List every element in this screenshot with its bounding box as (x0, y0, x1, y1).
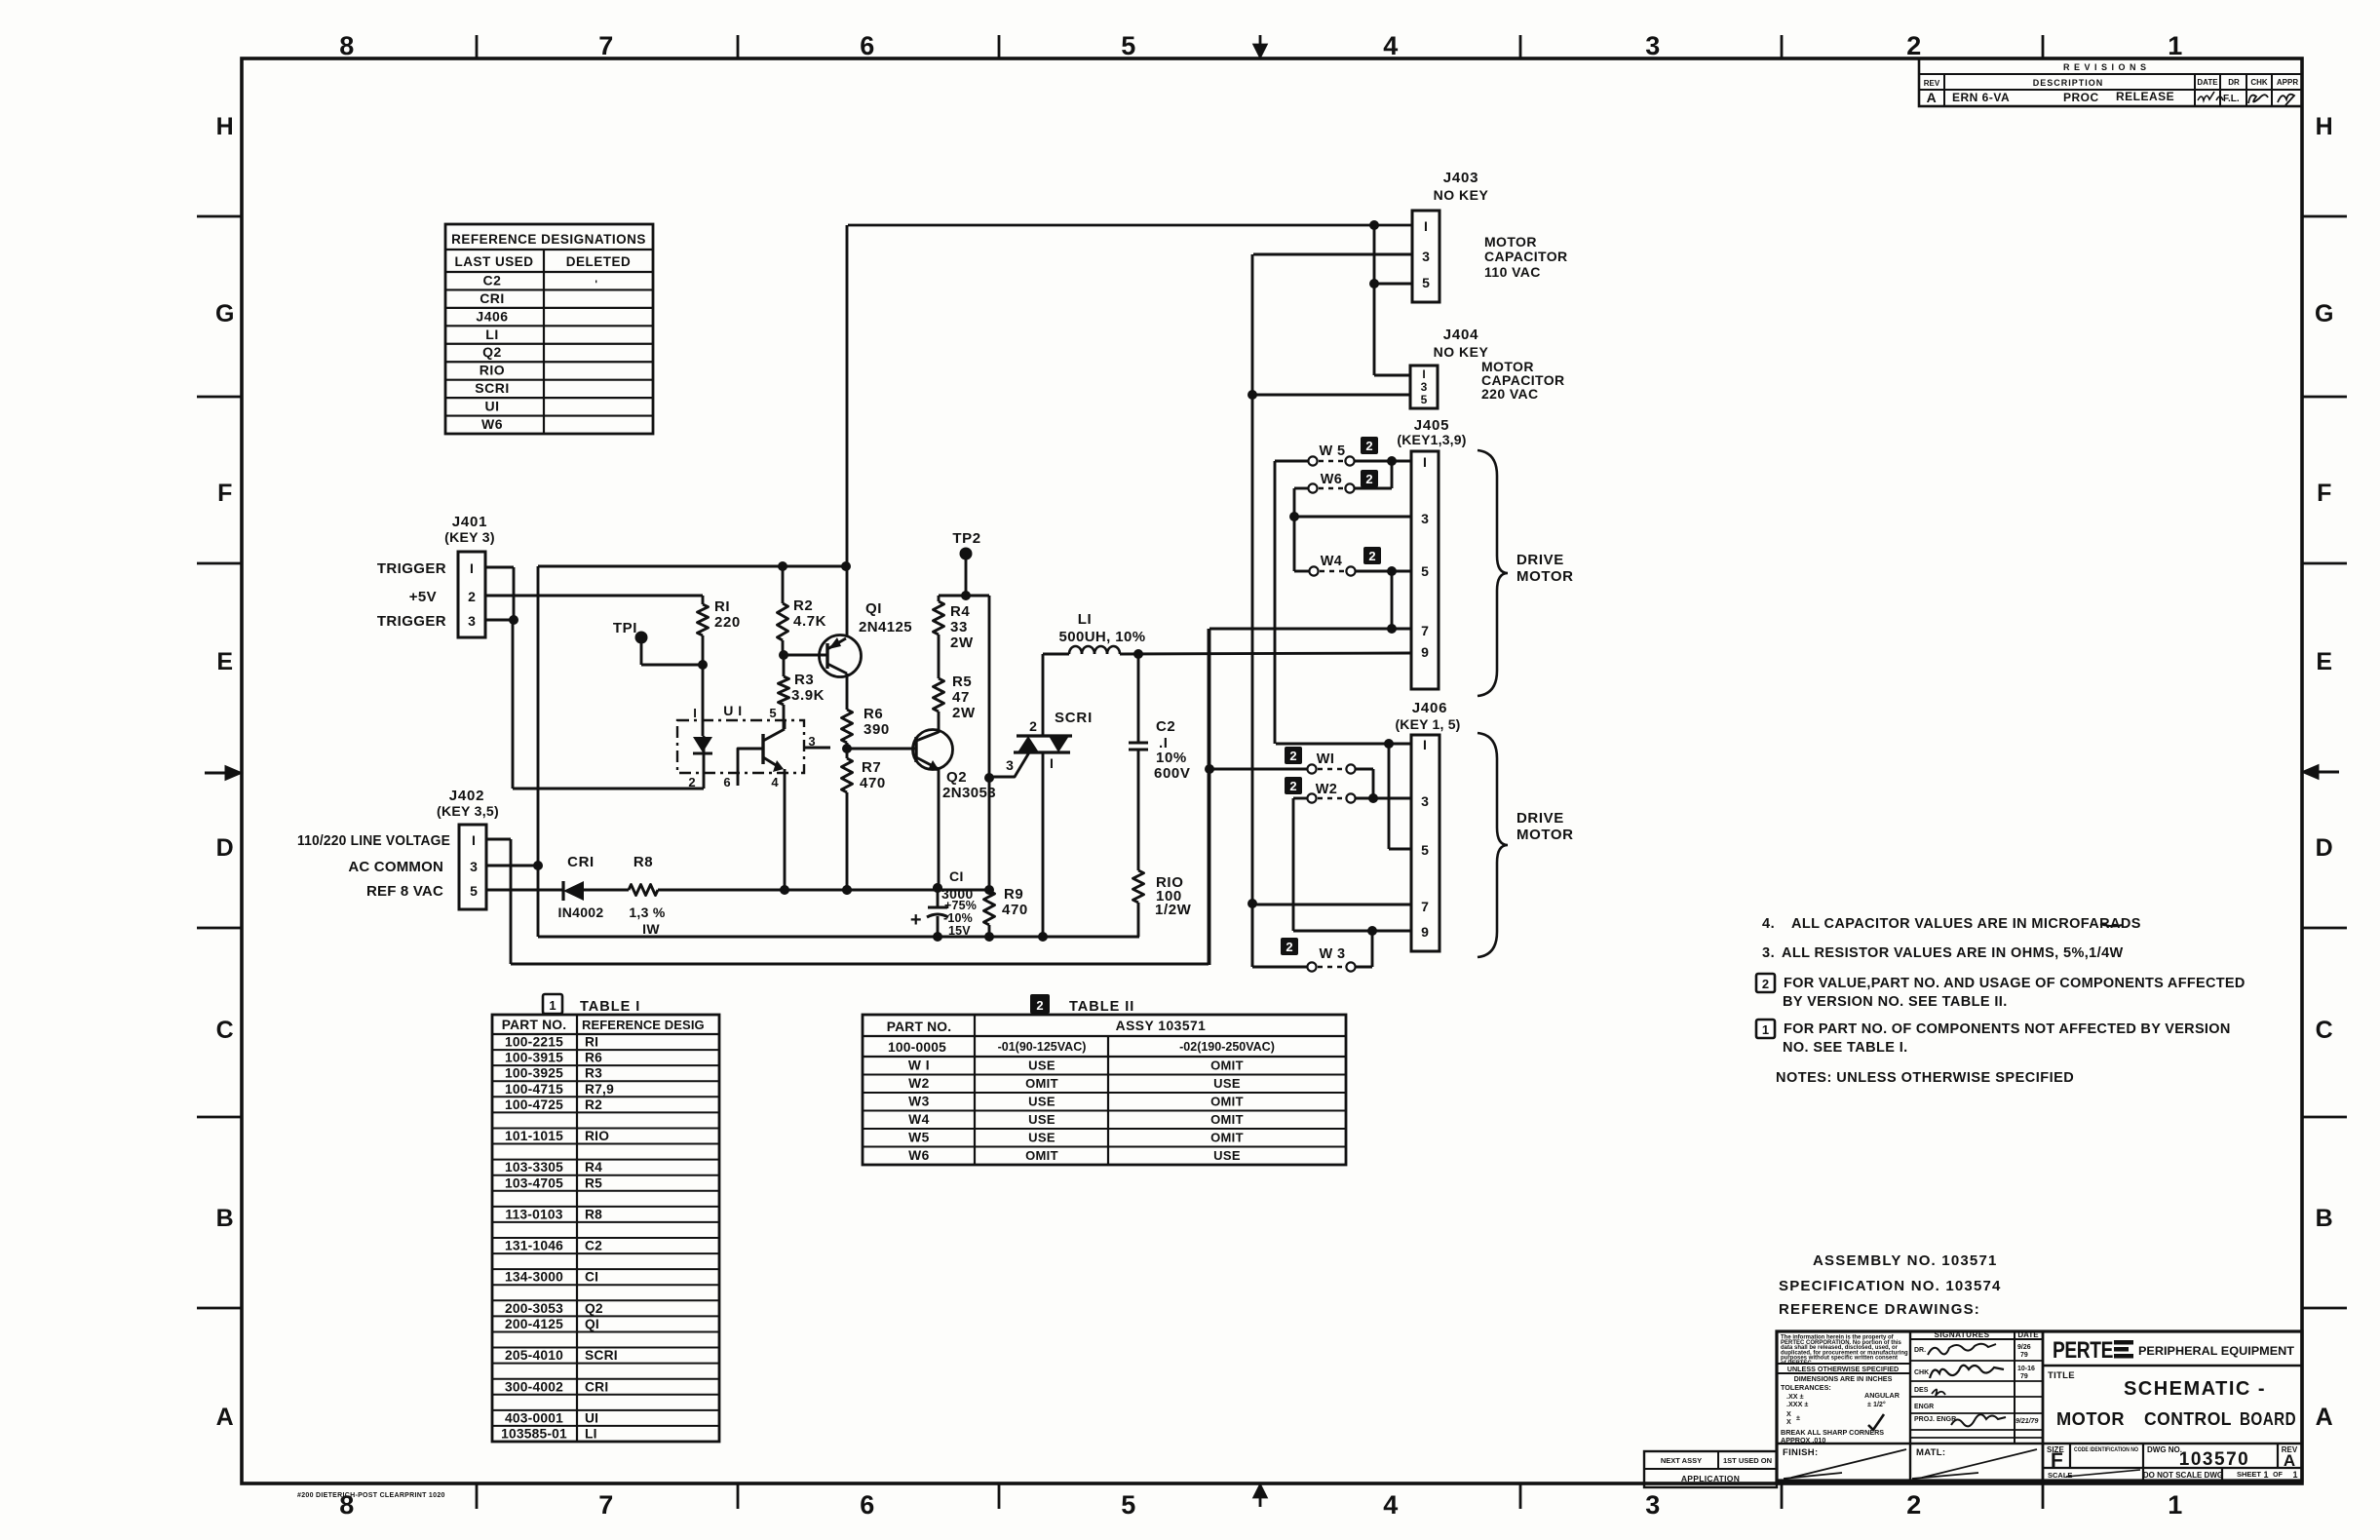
svg-text:CRI: CRI (585, 1379, 608, 1394)
svg-text:470: 470 (860, 775, 886, 791)
svg-text:5: 5 (1421, 393, 1428, 406)
svg-text:CONTROL: CONTROL (2144, 1409, 2232, 1429)
svg-text:9: 9 (1421, 644, 1429, 660)
svg-text:79: 79 (2020, 1373, 2028, 1380)
svg-text:2: 2 (1036, 998, 1043, 1013)
svg-text:PERTE: PERTE (2053, 1337, 2113, 1364)
svg-text:C2: C2 (1156, 718, 1175, 735)
svg-text:B: B (216, 1205, 235, 1232)
svg-text:1,3 %: 1,3 % (629, 905, 666, 920)
svg-text:600V: 600V (1154, 765, 1190, 782)
svg-text:2: 2 (688, 775, 695, 789)
svg-text:-02(190-250VAC): -02(190-250VAC) (1179, 1040, 1275, 1054)
svg-text:J406: J406 (476, 308, 508, 324)
svg-text:I: I (1424, 218, 1428, 234)
svg-text:ANGULAR: ANGULAR (1864, 1391, 1900, 1400)
svg-text:X: X (1786, 1417, 1791, 1426)
svg-text:FOR PART NO. OF COMPONENTS NOT: FOR PART NO. OF COMPONENTS NOT AFFECTED … (1784, 1021, 2231, 1037)
svg-text:PART NO.: PART NO. (502, 1018, 567, 1032)
svg-text:6: 6 (860, 1490, 875, 1520)
svg-text:47: 47 (952, 689, 970, 706)
svg-text:1: 1 (2168, 1490, 2183, 1520)
svg-text:USE: USE (1028, 1095, 1056, 1109)
svg-text:5: 5 (1121, 1490, 1136, 1520)
svg-text:2: 2 (1762, 977, 1769, 991)
svg-text:REFERENCE DRAWINGS:: REFERENCE DRAWINGS: (1779, 1301, 1980, 1318)
svg-text:LI: LI (585, 1427, 597, 1442)
svg-text:R3: R3 (794, 672, 814, 688)
svg-text:CODE IDENTIFICATION NO: CODE IDENTIFICATION NO (2074, 1446, 2138, 1453)
svg-text:I: I (472, 832, 476, 848)
svg-text:3.9K: 3.9K (791, 687, 825, 704)
svg-text:OMIT: OMIT (1210, 1095, 1244, 1109)
svg-text:PERIPHERAL EQUIPMENT: PERIPHERAL EQUIPMENT (2138, 1344, 2295, 1358)
svg-text:SHEET: SHEET (2237, 1470, 2261, 1479)
svg-text:F: F (217, 480, 233, 507)
svg-text:500UH, 10%: 500UH, 10% (1058, 629, 1145, 645)
svg-text:TRIGGER: TRIGGER (377, 560, 446, 577)
svg-text:RIO: RIO (480, 363, 505, 378)
svg-text:I: I (1050, 755, 1054, 771)
svg-text:J402: J402 (449, 788, 485, 804)
svg-text:3: 3 (1421, 793, 1429, 809)
svg-text:C: C (216, 1017, 235, 1044)
svg-text:131-1046: 131-1046 (505, 1239, 563, 1253)
svg-text:103-4705: 103-4705 (505, 1175, 563, 1190)
svg-text:C2: C2 (483, 272, 502, 288)
svg-text:101-1015: 101-1015 (505, 1129, 563, 1143)
svg-text:3: 3 (470, 859, 478, 874)
svg-text:200-3053: 200-3053 (505, 1301, 563, 1316)
svg-text:±: ± (1796, 1413, 1800, 1422)
svg-text:R7: R7 (862, 759, 881, 776)
svg-text:ALL RESISTOR VALUES ARE IN OHM: ALL RESISTOR VALUES ARE IN OHMS, 5%,1/4W (1782, 945, 2124, 961)
svg-text:W5: W5 (908, 1131, 930, 1145)
svg-text:REV: REV (1924, 79, 1940, 88)
svg-text:DWG NO.: DWG NO. (2147, 1445, 2182, 1454)
svg-text:W6: W6 (1321, 472, 1343, 487)
svg-text:5: 5 (1121, 31, 1136, 60)
svg-text:± 1/2°: ± 1/2° (1867, 1400, 1886, 1408)
svg-text:UNLESS OTHERWISE SPECIFIED: UNLESS OTHERWISE SPECIFIED (1787, 1365, 1899, 1373)
svg-text:390: 390 (864, 721, 890, 738)
svg-text:UI: UI (485, 399, 500, 414)
svg-text:R8: R8 (633, 854, 653, 870)
svg-text:OF: OF (2273, 1472, 2283, 1479)
svg-text:USE: USE (1028, 1059, 1056, 1073)
svg-text:10-16: 10-16 (2017, 1366, 2035, 1372)
svg-text:FINISH:: FINISH: (1783, 1447, 1818, 1458)
svg-text:REFERENCE DESIG: REFERENCE DESIG (582, 1018, 705, 1032)
svg-text:D: D (216, 834, 235, 862)
svg-text:NO. SEE TABLE I.: NO. SEE TABLE I. (1783, 1040, 1908, 1056)
svg-text:MOTOR: MOTOR (1516, 568, 1574, 585)
svg-text:W2: W2 (908, 1076, 930, 1091)
svg-text:REF 8 VAC: REF 8 VAC (366, 883, 443, 900)
svg-text:CHK: CHK (1914, 1369, 1929, 1376)
svg-text:15V: 15V (948, 924, 971, 938)
svg-text:200-4125: 200-4125 (505, 1317, 563, 1331)
svg-text:1: 1 (2263, 1470, 2268, 1480)
svg-text:3: 3 (1422, 249, 1430, 264)
svg-text:SIGNATURES: SIGNATURES (1934, 1330, 1989, 1339)
svg-text:I: I (693, 706, 697, 720)
svg-text:R6: R6 (864, 706, 883, 722)
svg-text:U I: U I (723, 703, 742, 718)
svg-text:TP2: TP2 (952, 530, 980, 547)
svg-text:SCRI: SCRI (585, 1348, 618, 1363)
svg-text:F.L.: F.L. (2223, 94, 2240, 104)
svg-text:103585-01: 103585-01 (501, 1427, 567, 1442)
svg-text:C: C (2316, 1017, 2334, 1044)
svg-text:100-3915: 100-3915 (505, 1051, 563, 1065)
svg-text:USE: USE (1213, 1076, 1241, 1091)
svg-text:WI: WI (1317, 751, 1335, 767)
svg-text:79: 79 (2020, 1352, 2028, 1359)
svg-text:MATL:: MATL: (1916, 1447, 1945, 1458)
svg-text:1: 1 (2292, 1470, 2297, 1480)
svg-text:ENGR: ENGR (1914, 1404, 1934, 1410)
svg-text:110/220 LINE VOLTAGE: 110/220 LINE VOLTAGE (297, 832, 450, 849)
svg-text:(KEY 3,5): (KEY 3,5) (437, 803, 499, 819)
svg-text:6: 6 (860, 31, 875, 60)
svg-text:R8: R8 (585, 1207, 602, 1221)
svg-text:DIMENSIONS ARE IN INCHES: DIMENSIONS ARE IN INCHES (1794, 1374, 1893, 1383)
svg-text:USE: USE (1213, 1148, 1241, 1163)
svg-text:103570: 103570 (2179, 1449, 2249, 1470)
svg-text:TOLERANCES:: TOLERANCES: (1781, 1383, 1831, 1392)
svg-text:134-3000: 134-3000 (505, 1270, 563, 1285)
svg-text:1ST USED ON: 1ST USED ON (1723, 1456, 1772, 1465)
svg-text:CRI: CRI (480, 290, 505, 306)
svg-text:7: 7 (1421, 899, 1429, 914)
svg-text:DATE: DATE (2017, 1330, 2039, 1339)
svg-text:QI: QI (585, 1317, 599, 1331)
svg-text:8: 8 (339, 31, 355, 60)
svg-text:UI: UI (585, 1410, 598, 1425)
svg-text:OMIT: OMIT (1210, 1059, 1244, 1073)
svg-text:4: 4 (1383, 1490, 1399, 1520)
svg-text:MOTOR: MOTOR (1516, 827, 1574, 843)
svg-text:Q2: Q2 (946, 769, 967, 786)
svg-text:J404: J404 (1443, 327, 1479, 343)
svg-text:3: 3 (808, 734, 815, 749)
svg-text:(KEY 1, 5): (KEY 1, 5) (1395, 716, 1460, 732)
svg-text:2: 2 (1289, 779, 1296, 793)
svg-text:R2: R2 (793, 597, 813, 614)
svg-text:LAST USED: LAST USED (454, 254, 533, 269)
svg-text:NO KEY: NO KEY (1434, 187, 1489, 203)
svg-text:B: B (2316, 1205, 2334, 1232)
svg-text:CAPACITOR: CAPACITOR (1484, 249, 1568, 264)
svg-text:3: 3 (1006, 757, 1014, 773)
svg-text:NO KEY: NO KEY (1434, 344, 1489, 360)
svg-text:5: 5 (1422, 275, 1430, 290)
svg-text:300-4002: 300-4002 (505, 1379, 563, 1394)
svg-text:PROJ. ENGR: PROJ. ENGR (1914, 1416, 1956, 1423)
svg-text:CRI: CRI (567, 854, 595, 870)
svg-text:TABLE I: TABLE I (580, 999, 640, 1015)
svg-text:205-4010: 205-4010 (505, 1348, 563, 1363)
svg-text:J406: J406 (1412, 700, 1448, 716)
svg-text:100-4725: 100-4725 (505, 1097, 563, 1112)
svg-text:SCHEMATIC -: SCHEMATIC - (2124, 1378, 2266, 1400)
svg-text:W3: W3 (908, 1095, 930, 1109)
svg-text:I: I (1423, 454, 1427, 470)
svg-text:.XXX ±: .XXX ± (1786, 1400, 1808, 1408)
svg-text:E: E (216, 648, 233, 675)
svg-text:APPR: APPR (2277, 78, 2298, 87)
svg-text:2N4125: 2N4125 (859, 619, 912, 635)
svg-text:SCALE: SCALE (2048, 1471, 2072, 1480)
svg-text:F: F (2051, 1449, 2063, 1472)
svg-text:J403: J403 (1443, 170, 1479, 186)
svg-text:BY VERSION NO. SEE TABLE II.: BY VERSION NO. SEE TABLE II. (1783, 994, 2008, 1010)
svg-text:4.7K: 4.7K (793, 613, 826, 630)
svg-text:7: 7 (598, 1490, 614, 1520)
svg-text:W I: W I (908, 1059, 930, 1073)
svg-text:W6: W6 (908, 1148, 930, 1163)
svg-text:6: 6 (723, 775, 730, 789)
svg-text:220 VAC: 220 VAC (1481, 386, 1539, 402)
svg-text:APPROX .010: APPROX .010 (1781, 1436, 1825, 1444)
svg-text:TABLE II: TABLE II (1069, 999, 1134, 1015)
svg-text:DRIVE: DRIVE (1516, 552, 1564, 568)
svg-text:470: 470 (1002, 902, 1028, 918)
svg-text:+: + (910, 909, 922, 931)
svg-text:W 5: W 5 (1320, 443, 1346, 459)
svg-text:2: 2 (1286, 940, 1292, 954)
svg-text:3: 3 (1645, 1490, 1661, 1520)
svg-text:7: 7 (598, 31, 614, 60)
svg-text:R E V I S I O N S: R E V I S I O N S (2063, 62, 2147, 72)
svg-text:DES: DES (1914, 1387, 1929, 1394)
svg-text:TPI: TPI (613, 620, 637, 636)
svg-text:IW: IW (642, 921, 660, 937)
svg-text:RI: RI (714, 598, 730, 615)
svg-text:NOTES: UNLESS OTHERWISE SPECIF: NOTES: UNLESS OTHERWISE SPECIFIED (1776, 1070, 2074, 1086)
svg-text:ERN 6-VA: ERN 6-VA (1952, 91, 2010, 104)
svg-text:A: A (2316, 1404, 2334, 1431)
svg-text:SCRI: SCRI (1055, 710, 1093, 726)
svg-text:ASSY 103571: ASSY 103571 (1116, 1019, 1207, 1033)
svg-text:W 3: W 3 (1320, 946, 1346, 962)
svg-text:': ' (595, 279, 597, 290)
svg-text:3: 3 (1421, 380, 1428, 394)
svg-text:5: 5 (769, 706, 776, 720)
svg-text:R4: R4 (585, 1160, 602, 1174)
svg-text:ALL CAPACITOR VALUES ARE IN MI: ALL CAPACITOR VALUES ARE IN MICROFARADS (1791, 916, 2141, 932)
svg-text:3.: 3. (1762, 945, 1775, 961)
svg-text:2: 2 (1029, 718, 1037, 734)
svg-text:+75%: +75% (944, 899, 977, 912)
svg-text:CHK: CHK (2250, 78, 2268, 87)
svg-text:ASSEMBLY NO. 103571: ASSEMBLY NO. 103571 (1813, 1252, 1998, 1269)
svg-text:5: 5 (1421, 563, 1429, 579)
svg-text:H: H (216, 113, 235, 140)
svg-text:2: 2 (468, 589, 476, 604)
svg-text:W2: W2 (1316, 782, 1338, 797)
svg-text:CI: CI (585, 1270, 598, 1285)
svg-text:DR: DR (2228, 78, 2240, 87)
svg-text:3: 3 (468, 613, 476, 629)
svg-text:MOTOR: MOTOR (1484, 234, 1537, 250)
svg-text:4: 4 (1383, 31, 1399, 60)
svg-text:4: 4 (771, 775, 779, 789)
svg-text:100-3925: 100-3925 (505, 1066, 563, 1081)
svg-text:IN4002: IN4002 (558, 905, 604, 920)
svg-text:9/26: 9/26 (2017, 1344, 2031, 1351)
svg-text:LI: LI (1078, 611, 1093, 628)
svg-text:2: 2 (1365, 472, 1372, 486)
svg-text:W4: W4 (908, 1112, 930, 1127)
svg-text:MOTOR: MOTOR (2056, 1409, 2125, 1429)
svg-text:220: 220 (714, 614, 741, 631)
svg-text:4.: 4. (1762, 916, 1775, 932)
svg-text:2: 2 (1289, 749, 1296, 763)
svg-text:R9: R9 (1004, 886, 1023, 903)
svg-text:2: 2 (1365, 439, 1372, 453)
svg-text:A: A (2284, 1451, 2295, 1470)
svg-text:W6: W6 (481, 416, 503, 432)
svg-text:7: 7 (1421, 623, 1429, 638)
svg-text:SCRI: SCRI (475, 380, 509, 396)
svg-text:DR.: DR. (1914, 1347, 1926, 1354)
svg-text:Q2: Q2 (482, 344, 502, 360)
svg-text:+5V: +5V (409, 589, 437, 605)
svg-text:2: 2 (1906, 31, 1922, 60)
svg-text:1/2W: 1/2W (1155, 902, 1192, 918)
svg-text:PROC: PROC (2063, 91, 2099, 104)
svg-text:9/21/79: 9/21/79 (2015, 1418, 2038, 1425)
svg-text:C2: C2 (585, 1239, 602, 1253)
svg-text:9: 9 (1421, 924, 1429, 940)
svg-text:RI: RI (585, 1035, 598, 1050)
svg-text:100-0005: 100-0005 (888, 1040, 946, 1055)
svg-text:2: 2 (1906, 1490, 1922, 1520)
svg-text:J401: J401 (452, 514, 488, 530)
svg-text:3: 3 (1421, 511, 1429, 526)
svg-text:G: G (2315, 300, 2334, 327)
svg-text:100-4715: 100-4715 (505, 1082, 563, 1097)
svg-text:(KEY 3): (KEY 3) (444, 529, 495, 545)
svg-text:R5: R5 (952, 674, 972, 690)
svg-text:TRIGGER: TRIGGER (377, 613, 446, 630)
svg-text:103-3305: 103-3305 (505, 1160, 563, 1174)
svg-text:1: 1 (2168, 31, 2183, 60)
svg-text:DO NOT SCALE DWG: DO NOT SCALE DWG (2143, 1471, 2223, 1480)
svg-text:113-0103: 113-0103 (505, 1207, 562, 1221)
svg-text:(KEY1,3,9): (KEY1,3,9) (1397, 432, 1466, 447)
svg-text:I: I (1422, 367, 1425, 381)
svg-text:-10%: -10% (943, 911, 973, 925)
svg-text:#200 DIETERICH-POST CLEARPR: #200 DIETERICH-POST CLEARPRINT 1020 (297, 1492, 445, 1499)
svg-text:E: E (2316, 648, 2332, 675)
svg-text:TITLE: TITLE (2048, 1370, 2075, 1381)
svg-text:3: 3 (1645, 31, 1661, 60)
svg-text:R6: R6 (585, 1051, 602, 1065)
svg-text:H: H (2316, 113, 2334, 140)
svg-text:R4: R4 (950, 603, 970, 620)
svg-text:1: 1 (549, 998, 556, 1013)
svg-text:110 VAC: 110 VAC (1484, 264, 1541, 280)
svg-text:I: I (1423, 737, 1427, 752)
svg-text:OMIT: OMIT (1025, 1148, 1058, 1163)
svg-text:PART NO.: PART NO. (887, 1020, 952, 1034)
svg-text:QI: QI (865, 600, 882, 617)
svg-text:DATE: DATE (2197, 78, 2218, 87)
svg-text:APPLICATION: APPLICATION (1681, 1474, 1740, 1483)
svg-text:W4: W4 (1321, 554, 1343, 569)
svg-text:A: A (1927, 90, 1938, 105)
svg-text:FOR VALUE,PART NO. AND USAGE O: FOR VALUE,PART NO. AND USAGE OF COMPONEN… (1784, 976, 2246, 991)
svg-text:403-0001: 403-0001 (505, 1410, 563, 1425)
svg-text:R2: R2 (585, 1097, 602, 1112)
svg-text:DRIVE: DRIVE (1516, 810, 1564, 827)
svg-text:RELEASE: RELEASE (2116, 90, 2174, 103)
svg-text:A: A (216, 1404, 235, 1431)
svg-text:1: 1 (1762, 1022, 1769, 1037)
svg-text:SPECIFICATION NO. 103574: SPECIFICATION NO. 103574 (1779, 1278, 2002, 1294)
svg-text:OMIT: OMIT (1210, 1131, 1244, 1145)
svg-text:D: D (2316, 834, 2334, 862)
svg-text:5: 5 (470, 883, 478, 899)
svg-text:AC COMMON: AC COMMON (348, 859, 443, 875)
svg-text:REFERENCE DESIGNATIONS: REFERENCE DESIGNATIONS (451, 232, 646, 247)
svg-text:F: F (2317, 480, 2332, 507)
svg-text:USE: USE (1028, 1112, 1056, 1127)
svg-text:10%: 10% (1156, 750, 1187, 766)
svg-text:RIO: RIO (585, 1129, 609, 1143)
svg-text:DESCRIPTION: DESCRIPTION (2033, 78, 2104, 88)
svg-text:NEXT ASSY: NEXT ASSY (1661, 1456, 1702, 1465)
svg-text:LI: LI (485, 327, 498, 342)
svg-text:2: 2 (1368, 549, 1375, 563)
svg-text:DELETED: DELETED (566, 254, 632, 269)
svg-text:5: 5 (1421, 842, 1429, 858)
svg-text:I: I (470, 560, 474, 576)
svg-text:Q2: Q2 (585, 1301, 603, 1316)
svg-text:USE: USE (1028, 1131, 1056, 1145)
svg-text:100-2215: 100-2215 (505, 1035, 563, 1050)
svg-text:R3: R3 (585, 1066, 602, 1081)
svg-text:R7,9: R7,9 (585, 1082, 614, 1097)
svg-text:OMIT: OMIT (1210, 1112, 1244, 1127)
svg-text:R5: R5 (585, 1175, 602, 1190)
svg-text:BOARD: BOARD (2240, 1409, 2296, 1429)
svg-text:G: G (215, 300, 235, 327)
svg-text:-01(90-125VAC): -01(90-125VAC) (998, 1040, 1087, 1054)
svg-text:CI: CI (949, 868, 964, 884)
svg-text:2W: 2W (950, 635, 974, 651)
svg-text:2W: 2W (952, 705, 976, 721)
svg-text:OMIT: OMIT (1025, 1076, 1058, 1091)
svg-text:2N3053: 2N3053 (942, 785, 996, 801)
svg-text:33: 33 (950, 619, 968, 635)
